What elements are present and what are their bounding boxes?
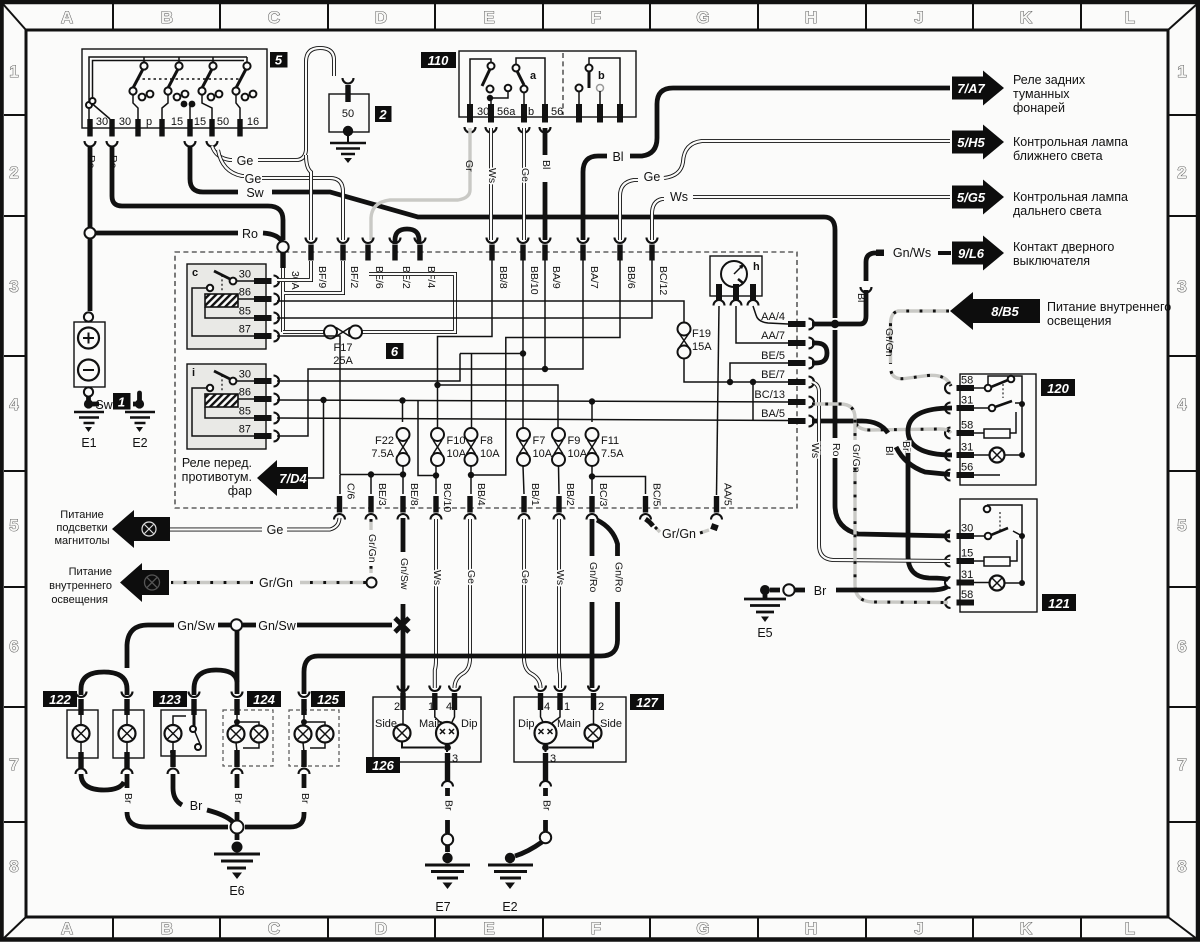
svg-text:31: 31	[961, 442, 973, 454]
switch contact set 2	[178, 57, 180, 62]
wire Sw from pin 15	[190, 146, 835, 318]
svg-text:86: 86	[239, 387, 251, 399]
svg-text:Bl: Bl	[883, 446, 895, 455]
svg-text:125: 125	[317, 692, 339, 707]
svg-text:E2: E2	[132, 436, 147, 450]
pin BE/7	[788, 379, 806, 385]
wire h pins to AA/4 AA/7 AA/5	[753, 306, 788, 324]
svg-text:31: 31	[961, 395, 973, 407]
wire Ro from pin 30 to battery	[88, 146, 93, 227]
svg-text:Br: Br	[122, 793, 134, 804]
svg-text:BF/4: BF/4	[425, 266, 437, 288]
pin 30 121	[957, 533, 975, 539]
svg-text:Sw: Sw	[246, 186, 264, 200]
svg-text:E: E	[483, 919, 494, 938]
svg-text:Питание внутреннего: Питание внутреннего	[1047, 300, 1171, 314]
starter solenoid 50 box 2	[343, 78, 354, 84]
svg-text:BA/7: BA/7	[588, 266, 600, 289]
wire Ro to 121/30	[835, 330, 950, 536]
svg-text:Ws: Ws	[486, 168, 498, 183]
light switch 110	[459, 51, 636, 117]
svg-text:30: 30	[119, 116, 131, 128]
wire Ge BB/1 to 127 pin4	[524, 519, 541, 688]
svg-text:Ro: Ro	[242, 227, 258, 241]
svg-text:c: c	[192, 267, 198, 279]
svg-text:Bl: Bl	[855, 293, 867, 302]
svg-text:K: K	[1020, 919, 1033, 938]
svg-text:Реле перед.: Реле перед.	[182, 456, 252, 470]
svg-text:C: C	[268, 8, 280, 27]
pin 31 121	[957, 580, 975, 586]
svg-text:C/6: C/6	[345, 483, 357, 500]
svg-text:1: 1	[1177, 62, 1186, 81]
svg-text:Gn/Sw: Gn/Sw	[398, 558, 410, 590]
arrow 9/L6	[952, 236, 1004, 271]
svg-text:K: K	[1020, 8, 1033, 27]
svg-text:5: 5	[1177, 516, 1186, 535]
wire BB/10 to F8 F7	[460, 260, 523, 428]
pin BB/6	[617, 245, 622, 261]
ignition pins 30 30 p 15 15 50 16	[87, 119, 92, 137]
svg-text:Ge: Ge	[519, 570, 531, 584]
wire Br from 122 to E6	[127, 774, 228, 827]
svg-text:6: 6	[1177, 637, 1186, 656]
svg-text:Контрольная лампа: Контрольная лампа	[1013, 190, 1128, 204]
headlight left 126	[373, 697, 481, 762]
svg-text:E: E	[483, 8, 494, 27]
svg-text:освещения: освещения	[1047, 314, 1111, 328]
wire 31-31 arc and Br down	[908, 408, 952, 455]
connector on Bl stub	[861, 287, 872, 293]
U loop AA/7 to BE/5	[812, 343, 827, 363]
wire Br from 125 to E6	[245, 774, 304, 827]
svg-text:BE/7: BE/7	[761, 369, 785, 381]
svg-text:b: b	[528, 106, 534, 118]
pin BE/3	[368, 496, 373, 513]
fuse F7	[517, 428, 530, 441]
wire Ge ignition 50 to starter relay 50	[212, 48, 334, 160]
wire i/86 to BC/13 net58	[277, 400, 788, 402]
svg-text:8: 8	[1177, 857, 1186, 876]
node 30A circle	[277, 241, 288, 252]
jumper arc BE/2-BF/4	[395, 229, 419, 244]
pin BA/7	[580, 245, 585, 261]
pin 58 121	[957, 600, 975, 606]
wire Ws BB/2 to 127 pin1	[559, 519, 560, 688]
wire Gn/Ws stub to 9/L6	[866, 253, 879, 281]
svg-text:7: 7	[9, 755, 18, 774]
svg-text:Gr/Gn: Gr/Gn	[259, 576, 293, 590]
pin 30A	[280, 252, 285, 268]
svg-text:15: 15	[194, 116, 206, 128]
svg-text:BB/4: BB/4	[475, 483, 487, 506]
wire i/87 to BA/9 BA/7	[277, 260, 583, 436]
svg-text:1: 1	[428, 701, 434, 713]
relay plate 6 dashed outline	[175, 252, 797, 508]
wire Ge BB/4 to 126 pin4	[455, 519, 471, 688]
svg-text:Ws: Ws	[431, 570, 443, 585]
relay c	[187, 264, 266, 349]
svg-text:1: 1	[118, 395, 125, 410]
fuse F22	[397, 428, 410, 441]
wire Gn/Ro BC/3 to 127 pin2	[590, 519, 595, 688]
wire Bl from 110/56 to BA/9	[543, 128, 548, 240]
wire parking bus C/6 BE/3 BE/8	[340, 466, 403, 494]
wire Ws from BC/12 up to arrow 5/G5	[652, 197, 950, 240]
svg-text:AA/5: AA/5	[722, 483, 734, 506]
wire Gn/Sw horizontal	[297, 623, 392, 628]
switch contact set 3	[212, 57, 214, 62]
svg-text:Ro: Ro	[830, 443, 842, 457]
wire net58 to F22	[402, 401, 404, 423]
svg-text:Side: Side	[600, 718, 622, 730]
svg-text:BE/5: BE/5	[761, 350, 785, 362]
svg-text:Br: Br	[190, 799, 203, 813]
svg-text:BC/10: BC/10	[441, 483, 453, 512]
svg-text:7.5A: 7.5A	[601, 448, 624, 460]
svg-text:Ge: Ge	[267, 523, 284, 537]
label 2	[375, 106, 392, 122]
svg-text:120: 120	[1047, 381, 1069, 396]
pin BF/9	[308, 245, 313, 261]
svg-text:F22: F22	[375, 435, 394, 447]
svg-text:Питание: Питание	[60, 509, 103, 521]
svg-text:Br: Br	[541, 800, 553, 811]
pin BA/9	[542, 245, 547, 261]
svg-text:E5: E5	[757, 626, 772, 640]
wire Ro from pin 30b	[112, 146, 283, 240]
svg-text:Br: Br	[814, 584, 827, 598]
lamp unit 125	[311, 691, 345, 707]
arrow radio illumination	[112, 510, 170, 548]
wire AA/4 door contact junction	[812, 290, 866, 324]
svg-text:7/D4: 7/D4	[279, 471, 307, 486]
svg-text:Sw: Sw	[95, 398, 113, 412]
svg-text:8: 8	[9, 857, 18, 876]
svg-text:5/G5: 5/G5	[957, 190, 986, 205]
wire net58 to 7/D4	[308, 400, 324, 478]
svg-text:B: B	[161, 8, 173, 27]
svg-text:5: 5	[9, 516, 18, 535]
wire net58 to F11	[591, 402, 593, 423]
svg-text:F10: F10	[447, 435, 466, 447]
svg-text:магнитолы: магнитолы	[54, 535, 109, 547]
wire c/85 to BC/12	[277, 260, 652, 318]
wire Ws from 110/56a	[489, 128, 493, 240]
svg-text:86: 86	[239, 287, 251, 299]
svg-text:1: 1	[9, 62, 18, 81]
ground E2	[137, 393, 142, 404]
pin BC/12	[649, 245, 654, 261]
pin BE/2	[392, 245, 397, 261]
pin 56 120	[957, 472, 975, 478]
wire i/85 to BA/5	[277, 418, 788, 421]
svg-text:2: 2	[9, 163, 18, 182]
svg-text:Dip: Dip	[518, 718, 535, 730]
svg-text:Bl: Bl	[612, 150, 623, 164]
svg-text:противотум.: противотум.	[182, 470, 252, 484]
svg-text:85: 85	[239, 406, 251, 418]
svg-text:3: 3	[1177, 277, 1186, 296]
pin C/6	[337, 496, 342, 513]
svg-text:Ws: Ws	[670, 190, 688, 204]
svg-text:58: 58	[961, 375, 973, 387]
wire BB/8 to F10 F9	[438, 260, 559, 428]
svg-text:121: 121	[1048, 596, 1070, 611]
svg-text:BB/2: BB/2	[564, 483, 576, 506]
wire Br 126 to E7	[445, 788, 450, 833]
svg-text:2: 2	[1177, 163, 1186, 182]
svg-text:L: L	[1125, 919, 1135, 938]
svg-text:E6: E6	[229, 884, 244, 898]
svg-text:30: 30	[961, 523, 973, 535]
svg-text:Реле задних: Реле задних	[1013, 73, 1086, 87]
wire BE/5 drop to BE/7 rail	[730, 363, 788, 382]
svg-text:50: 50	[342, 108, 354, 120]
wire BB/6 to F8 bottom BB/4	[471, 260, 620, 475]
switch unit 123	[153, 691, 187, 707]
svg-text:4: 4	[446, 701, 452, 713]
svg-text:4: 4	[9, 395, 19, 414]
svg-text:10A: 10A	[533, 448, 553, 460]
pin 58 120	[957, 385, 975, 391]
svg-text:50: 50	[217, 116, 229, 128]
svg-text:7: 7	[1177, 755, 1186, 774]
svg-text:4: 4	[1177, 395, 1187, 414]
fuse F9	[552, 428, 565, 441]
label 5	[270, 52, 288, 68]
svg-text:56: 56	[961, 462, 973, 474]
svg-text:Dip: Dip	[461, 718, 478, 730]
svg-text:a: a	[530, 70, 537, 82]
svg-text:2: 2	[378, 107, 387, 122]
fuse F8	[465, 428, 478, 441]
svg-text:15: 15	[171, 116, 183, 128]
svg-text:b: b	[598, 70, 605, 82]
svg-text:Gr: Gr	[463, 160, 475, 172]
svg-text:BB/6: BB/6	[625, 266, 637, 289]
svg-text:BA/5: BA/5	[761, 408, 785, 420]
arrow 7/A7	[952, 71, 1004, 106]
wire Ge junction down to BF/9	[306, 155, 311, 240]
svg-text:Ge: Ge	[519, 168, 531, 182]
svg-text:30: 30	[239, 369, 251, 381]
svg-text:BE/2: BE/2	[400, 266, 412, 289]
svg-text:Ws: Ws	[554, 570, 566, 585]
svg-text:BC/5: BC/5	[651, 483, 663, 507]
svg-text:J: J	[914, 8, 923, 27]
svg-text:ближнего света: ближнего света	[1013, 149, 1103, 163]
pin BB/4	[467, 496, 472, 513]
svg-text:Контрольная лампа: Контрольная лампа	[1013, 135, 1128, 149]
svg-text:Ge: Ge	[237, 154, 254, 168]
wire c/86 to F19	[277, 301, 684, 322]
svg-text:15A: 15A	[692, 341, 712, 353]
wire Gr/Gn dotted to 8/B5 and down to 120/58	[891, 311, 952, 386]
ignition switch 5	[82, 49, 267, 128]
svg-text:h: h	[753, 261, 760, 273]
svg-text:фар: фар	[228, 484, 252, 498]
wire net58 to BC/10 drop	[418, 401, 436, 476]
svg-text:Контакт дверного: Контакт дверного	[1013, 240, 1114, 254]
wire Gn/Sw from BE/8 down with X junction	[401, 518, 406, 696]
svg-text:F8: F8	[480, 435, 493, 447]
svg-text:Br: Br	[299, 793, 311, 804]
svg-text:E7: E7	[435, 900, 450, 914]
svg-text:BA/9: BA/9	[550, 266, 562, 289]
svg-text:31: 31	[961, 569, 973, 581]
pin BF/2	[340, 245, 345, 261]
ground E1	[86, 396, 91, 404]
wire Br from 123	[173, 774, 182, 805]
svg-text:дальнего света: дальнего света	[1013, 204, 1101, 218]
arrow interior light	[120, 563, 169, 602]
lamp unit 122	[43, 691, 77, 707]
svg-text:E2: E2	[502, 900, 517, 914]
pin BB/10	[520, 245, 525, 261]
svg-text:подсветки: подсветки	[56, 522, 107, 534]
svg-text:2: 2	[598, 701, 604, 713]
wire BA/5 riser to BE/7 rail	[752, 382, 754, 420]
svg-text:15: 15	[961, 548, 973, 560]
svg-text:Gr/Gn: Gr/Gn	[850, 444, 862, 473]
wire Gr gray from 110/30	[371, 128, 470, 240]
svg-text:F: F	[591, 8, 601, 27]
fuse F17	[283, 274, 455, 332]
arrow 5/H5	[952, 125, 1004, 160]
svg-text:G: G	[696, 8, 709, 27]
svg-text:E1: E1	[81, 436, 96, 450]
svg-text:6: 6	[9, 637, 18, 656]
svg-text:Bl: Bl	[540, 160, 552, 169]
svg-text:BE/8: BE/8	[408, 483, 420, 506]
svg-text:H: H	[805, 919, 817, 938]
arrow 5/G5	[952, 180, 1004, 215]
wire F11 to BC/5	[592, 466, 646, 494]
svg-text:3: 3	[9, 277, 18, 296]
svg-text:58: 58	[961, 589, 973, 601]
fuse F10	[431, 428, 444, 441]
svg-text:2: 2	[394, 701, 400, 713]
ground E5	[760, 585, 770, 595]
svg-text:F9: F9	[568, 435, 581, 447]
svg-text:F11: F11	[601, 435, 619, 447]
svg-text:A: A	[61, 919, 73, 938]
wire Gn/Ro second from BC/3 to 125	[304, 520, 618, 694]
wire Bl from BA/7 up to arrow 7/A7	[583, 88, 950, 240]
svg-text:BF/9: BF/9	[316, 266, 328, 288]
svg-text:Gr/Gn: Gr/Gn	[883, 328, 895, 357]
svg-text:C: C	[268, 919, 280, 938]
svg-text:D: D	[375, 919, 387, 938]
svg-text:D: D	[375, 8, 387, 27]
svg-text:BC/3: BC/3	[597, 483, 609, 507]
svg-text:122: 122	[49, 692, 71, 707]
svg-text:6: 6	[391, 344, 399, 359]
svg-text:5: 5	[275, 53, 283, 68]
wire Br 127 to E2 ground	[543, 788, 548, 831]
svg-text:фонарей: фонарей	[1013, 101, 1065, 115]
svg-text:Ws: Ws	[809, 443, 821, 458]
svg-text:3: 3	[550, 753, 556, 765]
relay i	[187, 364, 266, 449]
svg-text:Ro: Ro	[107, 155, 119, 169]
svg-text:7/A7: 7/A7	[957, 81, 985, 96]
svg-text:4: 4	[544, 701, 550, 713]
pin 58 120	[957, 430, 975, 436]
svg-text:85: 85	[239, 306, 251, 318]
svg-text:BC/13: BC/13	[754, 389, 785, 401]
pin AA/4	[788, 321, 806, 327]
svg-text:G: G	[696, 919, 709, 938]
pin 31 120	[957, 405, 975, 411]
svg-text:Gn/Ws: Gn/Ws	[893, 246, 931, 260]
svg-text:BB/8: BB/8	[497, 266, 509, 289]
pin 31 120	[957, 452, 975, 458]
svg-text:8/B5: 8/B5	[991, 304, 1019, 319]
arrow 8/B5 left-pointing	[950, 292, 1040, 330]
svg-text:Gn/Ro: Gn/Ro	[587, 562, 599, 593]
svg-text:25A: 25A	[333, 355, 353, 367]
pin 15 121	[957, 558, 975, 564]
svg-text:126: 126	[372, 758, 394, 773]
svg-text:87: 87	[239, 324, 251, 336]
svg-text:внутреннего: внутреннего	[49, 580, 112, 592]
wire Ws BC/10 to 126 pin1	[435, 519, 436, 688]
pin BE/6	[365, 245, 370, 261]
svg-text:F7: F7	[533, 435, 546, 447]
pin BA/5	[788, 418, 806, 424]
pin BB/8	[489, 245, 494, 261]
svg-text:Main: Main	[557, 718, 581, 730]
svg-text:7.5A: 7.5A	[371, 448, 394, 460]
svg-text:F19: F19	[692, 328, 711, 340]
wire Gr/Gn BC/13 to 121/58	[812, 404, 948, 603]
svg-text:BB/10: BB/10	[528, 266, 540, 295]
wire Ro row3 to 30A	[96, 231, 238, 236]
pin BC/13	[788, 399, 806, 405]
svg-text:30: 30	[96, 116, 108, 128]
wire Br from E5 to 121/31	[836, 586, 948, 590]
svg-text:9/L6: 9/L6	[958, 246, 985, 261]
headlight range switch 120	[960, 374, 1036, 485]
svg-text:16: 16	[247, 116, 259, 128]
svg-text:Питание: Питание	[69, 566, 112, 578]
svg-text:Br: Br	[900, 441, 912, 452]
svg-text:туманных: туманных	[1013, 87, 1070, 101]
wire Ge to radio arrow	[170, 518, 340, 530]
svg-text:5/H5: 5/H5	[957, 135, 985, 150]
svg-text:87: 87	[239, 424, 251, 436]
pin AA/7	[788, 340, 806, 346]
wire Ge from BB/6 up to arrow 5/H5	[620, 141, 950, 240]
svg-text:Gr/Gn: Gr/Gn	[366, 534, 378, 563]
svg-text:A: A	[61, 8, 73, 27]
fuse F11	[586, 428, 599, 441]
pin BC/3	[589, 496, 594, 513]
svg-text:Gr/Gn: Gr/Gn	[662, 527, 696, 541]
svg-text:3: 3	[452, 753, 458, 765]
svg-text:124: 124	[253, 692, 275, 707]
lamp unit 124	[247, 691, 281, 707]
wire Ge2 to BF/2	[218, 150, 343, 240]
wire i/30 riser	[277, 354, 460, 382]
svg-text:BE/6: BE/6	[373, 266, 385, 289]
instrument light dimmer 121	[960, 499, 1037, 612]
svg-text:30: 30	[239, 269, 251, 281]
svg-text:Gn/Sw: Gn/Sw	[258, 619, 296, 633]
svg-text:AA/7: AA/7	[761, 330, 785, 342]
